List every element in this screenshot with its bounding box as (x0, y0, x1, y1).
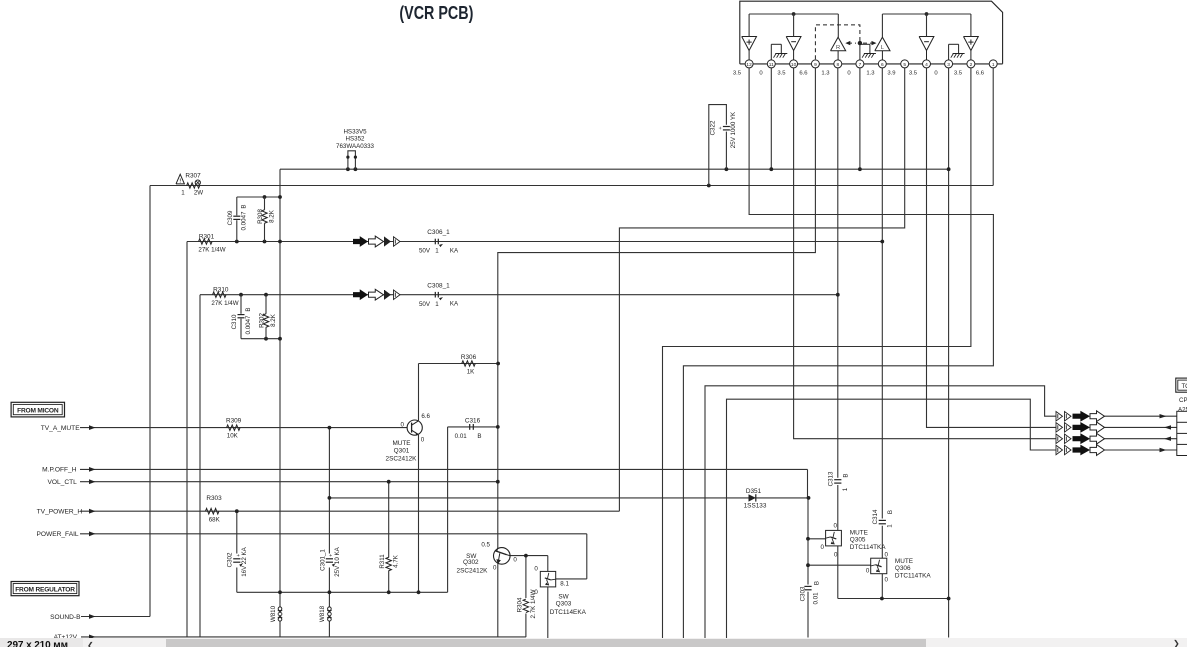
svg-text:HS352: HS352 (346, 136, 365, 143)
wire pin1 to B+ line (992, 68, 994, 186)
svg-text:12: 12 (746, 62, 752, 68)
svg-text:DTC114TKA: DTC114TKA (850, 544, 886, 551)
svg-text:10: 10 (791, 62, 797, 68)
IC pin circles 1-12 (745, 60, 997, 68)
svg-text:C313: C313 (827, 471, 834, 486)
svg-text:Q303: Q303 (556, 600, 572, 607)
wire Q305 emitter to mute-out bus (837, 546, 839, 599)
svg-text:C310: C310 (231, 314, 238, 329)
svg-text:C303: C303 (800, 586, 807, 601)
IC internal top link left (749, 14, 838, 37)
svg-text:763WAA0333: 763WAA0333 (336, 143, 375, 150)
capacitor C309 0.0047 B (227, 197, 248, 242)
wire W810 branch (279, 592, 281, 637)
head switch dashed control from pin9 (815, 25, 876, 59)
svg-text:R311: R311 (379, 554, 386, 569)
svg-text:25V 10 KA: 25V 10 KA (334, 546, 341, 576)
op-amp IC U301 outline (740, 1, 1003, 64)
svg-text:C306_1: C306_1 (427, 229, 450, 236)
resistor R311 4.7K (379, 554, 399, 571)
wire connector row1 feeder (705, 386, 1056, 638)
wire pin10 route to connector row3 (794, 68, 1056, 439)
jumper W810 (270, 605, 282, 622)
svg-text:B: B (477, 433, 481, 440)
resistor R309 10K (226, 418, 242, 440)
wire connector row3 line (1105, 438, 1177, 440)
resistor R303 68K (205, 495, 222, 524)
signal arrows to A2 connector (1056, 411, 1105, 456)
IC internal top link right (882, 14, 971, 37)
svg-text:SOUND-B: SOUND-B (50, 614, 81, 621)
svg-text:6.6: 6.6 (421, 413, 430, 420)
title (VCR PCB) (399, 2, 473, 23)
svg-text:1.3: 1.3 (866, 70, 875, 76)
wire AT+12V line (81, 636, 526, 638)
jumper W818 (319, 605, 331, 622)
svg-text:0.01: 0.01 (813, 592, 820, 605)
wire M.P.OFF_H line (80, 469, 808, 498)
svg-text:POWER_FAIL: POWER_FAIL (36, 531, 78, 538)
wire Q301 emitter (418, 435, 420, 593)
svg-text:1: 1 (886, 524, 893, 528)
wire connector row4 feeder (727, 399, 1057, 638)
resistor R302 8.2K (259, 295, 278, 339)
wire mute node vertical x808 (807, 498, 809, 638)
svg-text:MUTE: MUTE (392, 440, 410, 447)
scrollbar track (0, 638, 1187, 647)
svg-text:0: 0 (866, 568, 870, 575)
resistor R310 27K 1/4W (211, 286, 238, 307)
wire C313 to Q305 collector (837, 485, 839, 530)
wire connector row1 line (1105, 415, 1177, 417)
svg-text:50V: 50V (419, 248, 431, 255)
svg-text:0.5: 0.5 (481, 541, 490, 548)
svg-text:3.5: 3.5 (777, 70, 786, 76)
amp triangle pin2 (+) (964, 37, 979, 60)
svg-text:C309: C309 (227, 210, 234, 225)
svg-text:KA: KA (450, 247, 459, 254)
wire Q306 base link (808, 564, 871, 566)
signal label SOUND-B (50, 614, 95, 621)
svg-text:3.5: 3.5 (733, 70, 742, 76)
amp triangle pin4 (-) (919, 37, 934, 60)
wire pin12 route: down, right, down, left, down (683, 68, 993, 638)
signal flow arrows row C306_1 (353, 236, 400, 247)
svg-text:0: 0 (833, 522, 837, 529)
wire Q302 base link (510, 555, 548, 557)
wire SOUND-B line (81, 616, 150, 618)
svg-text:2SC2412K: 2SC2412K (457, 567, 489, 574)
scrollbar thumb (166, 639, 926, 647)
wire C301_1 branch (328, 428, 330, 637)
wire Q302 emitter (497, 564, 499, 637)
resistor R304 2.7K 1/4W (517, 589, 538, 618)
svg-text:25V 1000 YK: 25V 1000 YK (730, 111, 737, 148)
diode D351 1SS133 (744, 488, 767, 510)
wire C316 link (448, 427, 498, 592)
svg-text:D351: D351 (746, 488, 762, 495)
svg-text:VOL_CTL: VOL_CTL (47, 479, 77, 486)
signal label VOL_CTL (47, 479, 95, 486)
svg-text:8.1: 8.1 (560, 580, 569, 587)
capacitor C308_1 50V 1 KA (419, 283, 459, 308)
svg-text:B: B (813, 581, 820, 585)
capacitor C303 0.01 B (800, 581, 821, 605)
svg-text:B: B (245, 307, 252, 311)
L head-select triangle pin6 (875, 37, 890, 60)
capacitor C314 1 B (872, 509, 894, 528)
wire Q303 emitter (547, 587, 549, 641)
wire connector row4 line (1105, 449, 1177, 451)
svg-text:B: B (843, 473, 850, 477)
svg-text:6: 6 (881, 62, 884, 68)
capacitor C322 (709, 105, 737, 186)
IC ground symbol pin11 (771, 44, 787, 60)
svg-text:FROM MICON: FROM MICON (17, 407, 59, 414)
svg-text:6.6: 6.6 (976, 70, 985, 76)
wire rail x280 from ground bus down to W810 (279, 169, 281, 592)
connector A2 pin block (1177, 411, 1187, 455)
svg-text:1: 1 (435, 248, 439, 255)
connector arrowheads (1160, 414, 1172, 452)
svg-text:Q301: Q301 (394, 448, 410, 455)
wire C310/R302 bottom tie y338.7 (241, 338, 280, 340)
capacitor C313 1 B (827, 471, 849, 491)
svg-text:68K: 68K (209, 516, 221, 523)
svg-text:FROM REGULATOR: FROM REGULATOR (15, 586, 75, 593)
svg-text:!: ! (179, 178, 181, 184)
transistor Q305 MUTE DTC114TKA (821, 522, 887, 558)
capacitor C302 16V 22 KA (227, 546, 249, 576)
svg-text:0: 0 (401, 421, 405, 428)
signal label TV_A_MUTE (41, 425, 96, 432)
svg-text:KA: KA (450, 301, 459, 308)
capacitor C310 0.0047 B (231, 295, 252, 339)
svg-text:DTC114EKA: DTC114EKA (550, 609, 587, 616)
svg-text:0: 0 (885, 577, 889, 584)
svg-text:1: 1 (992, 62, 995, 68)
svg-text:27K 1/4W: 27K 1/4W (211, 300, 238, 307)
signal label POWER_FAIL (36, 531, 95, 538)
wire R311 branch (388, 482, 390, 593)
svg-text:5: 5 (903, 62, 906, 68)
svg-text:W810: W810 (270, 605, 277, 622)
wire R301 audio line y241.5 (187, 241, 882, 243)
svg-text:16V 22 KA: 16V 22 KA (241, 546, 248, 576)
svg-text:8: 8 (836, 62, 839, 68)
svg-text:1: 1 (181, 190, 185, 197)
svg-text:C322: C322 (710, 120, 717, 135)
svg-text:DTC114TKA: DTC114TKA (895, 573, 931, 580)
resistor R308 8.2K (257, 197, 276, 242)
R head-select triangle pin8 (831, 37, 846, 60)
svg-text:W818: W818 (319, 605, 326, 622)
svg-text:3: 3 (947, 62, 950, 68)
svg-text:1K: 1K (467, 368, 475, 375)
jumper HS33V5 HS352 763WAA0333 (336, 129, 375, 170)
svg-text:M.P.OFF_H: M.P.OFF_H (42, 467, 77, 474)
FROM REGULATOR box (11, 582, 79, 596)
svg-text:3.9: 3.9 (887, 70, 895, 76)
resistor R307 1 2W fusible (176, 173, 203, 197)
svg-text:Q305: Q305 (850, 537, 866, 544)
scrollbar left label area (0, 638, 83, 647)
svg-text:1: 1 (435, 301, 439, 308)
wire pin11 to ground bus (770, 68, 772, 169)
wire C302 branch (236, 511, 238, 592)
wire Q301 collector (418, 364, 420, 421)
svg-text:MUTE: MUTE (895, 558, 913, 565)
wire ground bus y169 from x280 to pin3 (280, 168, 949, 170)
wire pin4 route to connector row2 (927, 68, 1057, 428)
page size label 297 x 210 MM (7, 640, 68, 647)
svg-text:A25: A25 (1178, 407, 1187, 414)
label A25 (1178, 407, 1187, 414)
svg-text:R309: R309 (226, 418, 242, 425)
amp triangle pin10 (-) (786, 37, 801, 60)
transistor Q303 SW DTC114EKA (534, 566, 586, 617)
wire Q303 collector (547, 556, 549, 572)
svg-text:8.2K: 8.2K (269, 209, 276, 223)
scrollbar left arrow (87, 641, 94, 647)
svg-text:R302: R302 (259, 313, 266, 328)
svg-text:0: 0 (493, 564, 497, 571)
svg-text:2W: 2W (194, 190, 203, 197)
svg-text:0: 0 (421, 436, 425, 443)
svg-text:11: 11 (769, 62, 774, 68)
svg-text:C316: C316 (465, 418, 481, 425)
wire R306 link (419, 363, 499, 365)
wire connector row2 line (1105, 426, 1177, 428)
svg-text:R304: R304 (517, 597, 524, 612)
wire pin9 route to Q302 collector (498, 68, 816, 548)
wire D351 line (329, 497, 808, 499)
svg-text:R: R (836, 45, 840, 51)
wire TV_POWER_H line to pin5 riser (80, 510, 619, 512)
wire mute-out bus y598.5 (838, 598, 949, 600)
svg-text:0.01: 0.01 (455, 433, 468, 440)
IC ground symbol pin7 (860, 44, 876, 60)
wire pin2 route down-left (663, 68, 971, 638)
wire C314 to Q306 collector (881, 526, 883, 559)
svg-text:4.7K: 4.7K (393, 554, 400, 568)
svg-text:0.0047: 0.0047 (241, 211, 248, 230)
wire Q305 base link (808, 538, 826, 540)
svg-text:0.0047: 0.0047 (245, 315, 252, 334)
svg-text:6.6: 6.6 (799, 70, 808, 76)
wire POWER_FAIL line to Q303 base (80, 534, 587, 579)
svg-text:C308_1: C308_1 (427, 283, 450, 290)
wire pin8 route to C313 (837, 68, 839, 478)
wire rail x200 from R310 line down to AT+12V (199, 295, 201, 637)
svg-text:+: + (718, 126, 724, 129)
svg-text:C301_1: C301_1 (319, 549, 326, 571)
wire TV_A_MUTE line (80, 427, 407, 429)
svg-text:4: 4 (925, 62, 928, 68)
svg-text:R301: R301 (199, 233, 215, 240)
wire pin3 ground rail (948, 68, 950, 638)
signal label M.P.OFF_H (42, 467, 95, 474)
resistor R301 27K 1/4W (198, 233, 225, 253)
svg-text:0: 0 (885, 552, 889, 559)
svg-text:1: 1 (842, 487, 849, 491)
IC ground symbol pin3 (949, 44, 965, 60)
wire rail x187 from R301 line down to AT+12V (186, 242, 188, 637)
svg-text:C302: C302 (227, 552, 234, 567)
scrollbar right arrow (1173, 639, 1180, 647)
svg-text:Q302: Q302 (463, 559, 479, 566)
svg-text:Q306: Q306 (895, 565, 911, 572)
svg-text:1SS133: 1SS133 (744, 503, 767, 510)
svg-text:R306: R306 (461, 354, 477, 361)
svg-text:R308: R308 (257, 209, 264, 224)
wire pin7 to ground bus (859, 68, 861, 169)
TO destination box (1176, 378, 1187, 392)
pin voltage labels (733, 70, 985, 76)
svg-text:C314: C314 (872, 509, 879, 524)
svg-text:(VCR PCB): (VCR PCB) (399, 2, 473, 23)
amp triangle pin12 (+) (742, 37, 757, 60)
transistor Q301 MUTE 2SC2412K (386, 413, 431, 462)
capacitor C306_1 50V 1 KA (419, 229, 459, 255)
wire mute bus y592.3 (237, 591, 448, 593)
signal flow arrows row C308_1 (353, 289, 400, 300)
svg-text:0: 0 (834, 552, 838, 559)
svg-text:3.5: 3.5 (954, 70, 963, 76)
svg-text:0: 0 (513, 556, 517, 563)
capacitor C301_1 25V 10 KA (319, 546, 341, 576)
svg-text:8.2K: 8.2K (270, 313, 277, 327)
wire C309/R308 top tie y197 (237, 196, 280, 198)
svg-text:MUTE: MUTE (850, 530, 868, 537)
wire pin6 route to C314 (881, 68, 883, 519)
svg-text:0: 0 (821, 544, 825, 551)
svg-text:3.5: 3.5 (909, 70, 918, 76)
wire R304 branch (525, 556, 527, 638)
svg-text:B: B (241, 204, 248, 208)
signal label TV_POWER_H (37, 509, 96, 516)
wire R310 audio line y294.7 (200, 294, 838, 296)
svg-text:0: 0 (534, 566, 538, 573)
FROM MICON box (11, 402, 64, 417)
svg-text:2: 2 (970, 62, 973, 68)
svg-text:CPC: CPC (1179, 397, 1187, 404)
svg-text:2.7K 1/4W: 2.7K 1/4W (530, 589, 537, 618)
svg-text:10K: 10K (227, 432, 239, 439)
svg-text:B: B (887, 510, 894, 514)
wire VOL_CTL line (80, 481, 498, 483)
transistor Q306 MUTE DTC114TKA (866, 552, 932, 584)
svg-text:1.3: 1.3 (821, 70, 830, 76)
wire SOUND-B rail vertical x150 (149, 186, 151, 617)
svg-text:TV_A_MUTE: TV_A_MUTE (41, 425, 80, 432)
signal label AT+12V (54, 634, 96, 641)
svg-text:2SC2412K: 2SC2412K (386, 455, 418, 462)
wire Q306 emitter (881, 574, 883, 599)
svg-text:R307: R307 (185, 173, 201, 180)
svg-text:TV_POWER_H: TV_POWER_H (37, 509, 83, 516)
svg-text:R310: R310 (213, 286, 229, 293)
wire B+ line from R307 to IC pin1 (150, 185, 993, 187)
wire pin5 route to TV_POWER (619, 68, 904, 511)
svg-text:R303: R303 (206, 495, 222, 502)
svg-text:27K 1/4W: 27K 1/4W (198, 247, 225, 254)
svg-text:TO: TO (1182, 383, 1187, 390)
svg-text:50V: 50V (419, 301, 431, 308)
svg-text:9: 9 (814, 62, 817, 68)
resistor R306 1K (461, 354, 477, 376)
capacitor C316 0.01 B (455, 418, 482, 440)
transistor Q302 SW 2SC2412K (457, 541, 518, 574)
svg-text:7: 7 (859, 62, 862, 68)
svg-text:HS33V5: HS33V5 (343, 129, 367, 136)
label CPC (1179, 397, 1187, 404)
